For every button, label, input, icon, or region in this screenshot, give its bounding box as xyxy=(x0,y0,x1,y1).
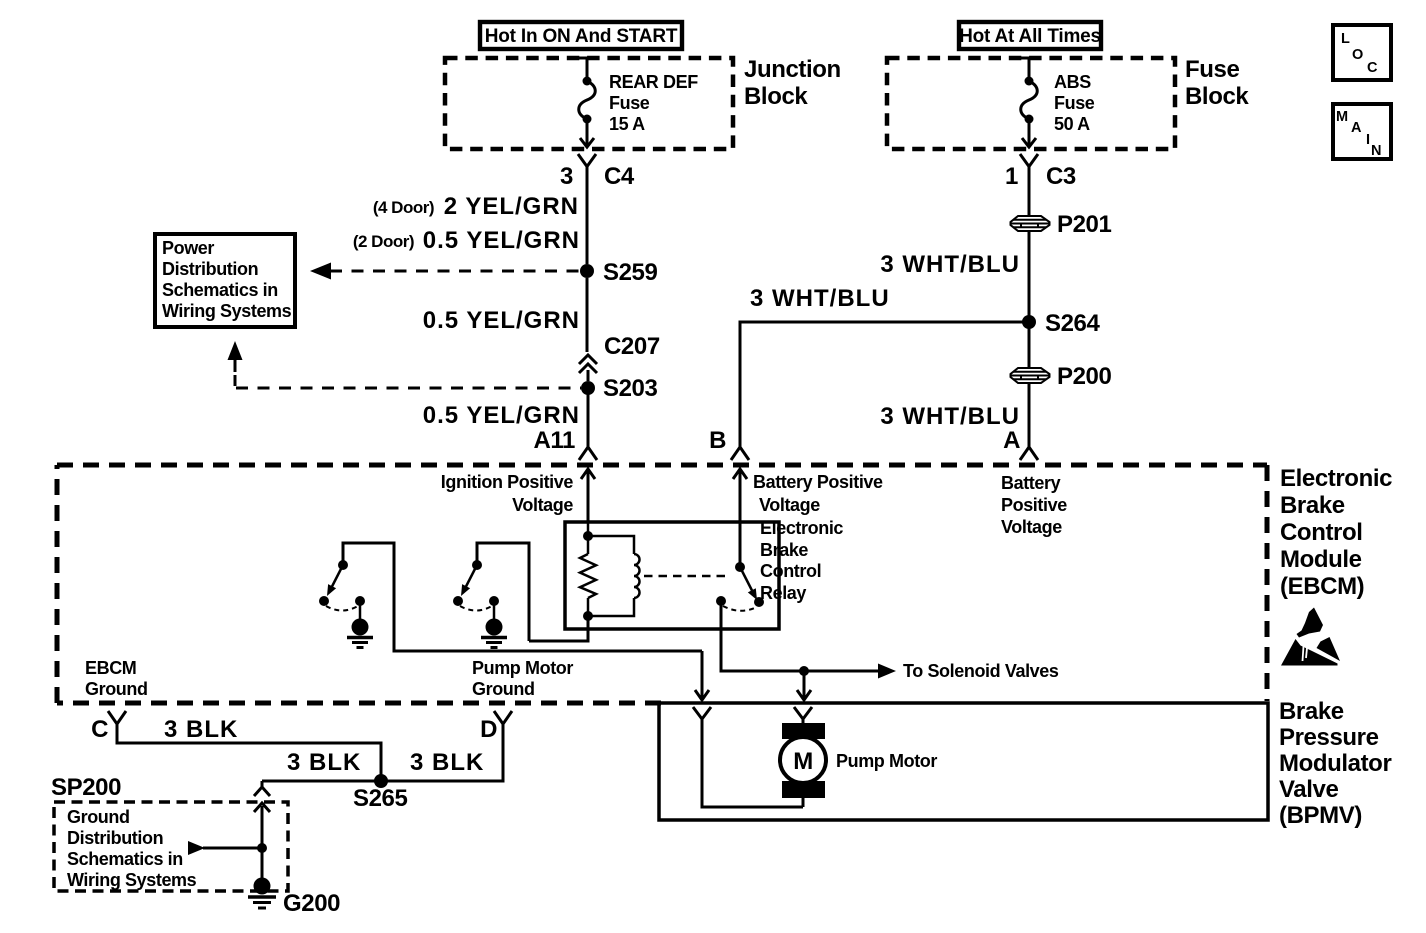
svg-text:Fuse: Fuse xyxy=(1054,93,1095,113)
svg-text:Ignition Positive: Ignition Positive xyxy=(441,472,574,492)
relay box xyxy=(565,522,779,629)
LOC legend box xyxy=(1333,25,1391,80)
connector C4 xyxy=(578,154,596,264)
wire S265 to SP200 xyxy=(262,780,381,783)
Junction Block dashed box xyxy=(445,58,733,149)
svg-text:Distribution: Distribution xyxy=(162,259,258,279)
svg-text:C: C xyxy=(91,716,108,743)
wire B to relay switch with up arrow xyxy=(733,469,747,567)
svg-text:Brake: Brake xyxy=(1279,698,1344,725)
svg-text:Wiring Systems: Wiring Systems xyxy=(67,870,197,890)
connector C3 xyxy=(1020,154,1038,216)
svg-text:3: 3 xyxy=(560,163,573,190)
EBCM internal switch 1 xyxy=(319,543,702,651)
svg-text:Block: Block xyxy=(744,83,808,110)
svg-text:L: L xyxy=(1341,31,1350,47)
svg-text:50 A: 50 A xyxy=(1054,114,1090,134)
svg-text:Block: Block xyxy=(1185,83,1249,110)
wire S259 to C207 xyxy=(586,278,589,352)
svg-text:2 YEL/GRN: 2 YEL/GRN xyxy=(444,193,579,220)
inline connector P201 xyxy=(1011,216,1050,231)
svg-text:P200: P200 xyxy=(1057,363,1112,390)
svg-text:Hot At All Times: Hot At All Times xyxy=(959,26,1101,47)
svg-text:S259: S259 xyxy=(603,259,658,286)
svg-text:Positive: Positive xyxy=(1001,495,1067,515)
svg-text:SP200: SP200 xyxy=(51,774,121,801)
BPMV right pin connector xyxy=(794,707,812,725)
svg-text:C207: C207 xyxy=(604,333,660,360)
svg-text:Brake: Brake xyxy=(760,540,808,560)
fuse REAR DEF 15 A xyxy=(578,58,596,147)
ground (switch 2) xyxy=(493,601,496,619)
svg-text:Brake: Brake xyxy=(1280,492,1345,519)
connector B xyxy=(731,447,749,460)
svg-text:Schematics in: Schematics in xyxy=(162,280,278,300)
svg-text:REAR DEF: REAR DEF xyxy=(609,72,698,92)
svg-text:EBCM: EBCM xyxy=(85,658,136,678)
svg-text:P201: P201 xyxy=(1057,211,1112,238)
splice S264 xyxy=(1022,315,1036,329)
svg-text:0.5 YEL/GRN: 0.5 YEL/GRN xyxy=(423,307,580,334)
svg-text:Hot In ON And START: Hot In ON And START xyxy=(485,26,678,47)
svg-text:Voltage: Voltage xyxy=(1001,517,1062,537)
svg-text:M: M xyxy=(1336,109,1348,125)
svg-text:Relay: Relay xyxy=(760,583,806,603)
relay actuation dashed line xyxy=(644,575,730,578)
svg-text:S203: S203 xyxy=(603,375,658,402)
svg-text:Battery Positive: Battery Positive xyxy=(753,472,883,492)
svg-text:C: C xyxy=(1367,60,1378,76)
EBCM dashed box xyxy=(57,465,1267,703)
svg-text:Voltage: Voltage xyxy=(512,495,573,515)
relay junction dots xyxy=(583,531,593,541)
connector A11 xyxy=(579,447,597,460)
relay resistor xyxy=(580,522,596,616)
connector C207 xyxy=(579,355,597,381)
svg-text:3 WHT/BLU: 3 WHT/BLU xyxy=(880,403,1020,430)
svg-text:Ground: Ground xyxy=(85,679,148,699)
splice S265 xyxy=(374,774,388,788)
ground (switch 1) xyxy=(359,601,362,619)
wire S264 to P200 xyxy=(1028,322,1031,369)
svg-text:Electronic: Electronic xyxy=(1280,465,1392,492)
SP200 dashed box: Ground Distribution Schematics in Wiring Systems xyxy=(54,802,288,891)
svg-text:3 BLK: 3 BLK xyxy=(287,749,361,776)
svg-text:Wiring Systems: Wiring Systems xyxy=(162,301,292,321)
wire S203 to A11 xyxy=(587,388,590,449)
inline connector P200 xyxy=(1011,368,1050,383)
svg-text:(4 Door): (4 Door) xyxy=(373,198,434,217)
MAIN legend box xyxy=(1333,104,1391,159)
relay switch xyxy=(735,562,745,572)
svg-text:Voltage: Voltage xyxy=(759,495,820,515)
BPMV left pin connector xyxy=(693,707,803,807)
svg-text:To Solenoid Valves: To Solenoid Valves xyxy=(903,661,1059,681)
svg-text:Electronic: Electronic xyxy=(760,518,843,538)
BPMV box xyxy=(659,703,1268,820)
svg-text:Ground: Ground xyxy=(67,807,130,827)
svg-text:Power: Power xyxy=(162,238,214,258)
splice S203 xyxy=(581,381,595,395)
svg-text:Valve: Valve xyxy=(1279,776,1338,803)
svg-text:Pressure: Pressure xyxy=(1279,724,1379,751)
relay coil xyxy=(588,536,640,616)
dashed wire S259 to Power Distribution box xyxy=(330,270,581,273)
svg-text:Module: Module xyxy=(1280,546,1362,573)
svg-text:D: D xyxy=(480,716,497,743)
svg-text:3 BLK: 3 BLK xyxy=(164,716,238,743)
svg-text:Ground: Ground xyxy=(472,679,535,699)
arrow to G200 wire xyxy=(188,841,205,855)
arrow into Power Distribution box (from S203 dashed wire) xyxy=(228,341,243,360)
svg-text:ABS: ABS xyxy=(1054,72,1091,92)
svg-text:0.5 YEL/GRN: 0.5 YEL/GRN xyxy=(423,227,580,254)
connector chevrons on ground wire xyxy=(254,781,270,878)
junction dot on solenoid wire xyxy=(799,666,809,676)
svg-text:1: 1 xyxy=(1005,163,1018,190)
svg-text:0.5 YEL/GRN: 0.5 YEL/GRN xyxy=(423,402,580,429)
svg-text:C4: C4 xyxy=(604,163,635,190)
wire junction down to BPMV with arrow xyxy=(797,671,811,700)
svg-text:A: A xyxy=(1351,120,1362,136)
svg-text:Junction: Junction xyxy=(744,56,841,83)
svg-text:Schematics in: Schematics in xyxy=(67,849,183,869)
ESD sensitivity symbol xyxy=(1281,608,1340,666)
connector A xyxy=(1020,447,1038,460)
svg-text:N: N xyxy=(1371,143,1381,159)
svg-text:Distribution: Distribution xyxy=(67,828,163,848)
ground G200 xyxy=(254,878,271,895)
svg-text:15 A: 15 A xyxy=(609,114,645,134)
wire P201 to S264 xyxy=(1028,231,1031,322)
label box: Hot In ON And START xyxy=(480,22,682,49)
svg-text:(BPMV): (BPMV) xyxy=(1279,802,1362,829)
svg-text:Pump Motor: Pump Motor xyxy=(472,658,573,678)
svg-text:M: M xyxy=(793,748,813,775)
svg-text:S264: S264 xyxy=(1045,310,1101,337)
svg-text:(2 Door): (2 Door) xyxy=(353,232,414,251)
svg-text:Fuse: Fuse xyxy=(609,93,650,113)
dashed wire S203 to arrow xyxy=(236,387,581,390)
svg-text:A11: A11 xyxy=(533,427,575,454)
wire relay switch to solenoid valves and pump motor xyxy=(721,601,884,671)
svg-text:Control: Control xyxy=(760,561,821,581)
svg-text:I: I xyxy=(1366,132,1370,148)
EBCM internal switch 2 xyxy=(453,543,529,648)
wire S265 to D xyxy=(381,724,503,781)
label box: Hot At All Times xyxy=(959,22,1101,49)
svg-text:A: A xyxy=(1003,427,1020,454)
svg-text:Battery: Battery xyxy=(1001,473,1061,493)
box Power Distribution Schematics in Wiring Systems xyxy=(155,234,295,327)
wire switch 1 down to BPMV left pin with arrow xyxy=(695,651,709,700)
Fuse Block dashed box xyxy=(887,58,1175,149)
svg-text:3 WHT/BLU: 3 WHT/BLU xyxy=(880,251,1020,278)
svg-text:S265: S265 xyxy=(353,785,408,812)
relay coil wire to switches xyxy=(529,616,588,641)
svg-text:Modulator: Modulator xyxy=(1279,750,1391,777)
wire S264 to B xyxy=(740,322,1029,449)
text Electronic Brake Control Module (EBCM) xyxy=(1280,465,1392,600)
svg-text:3 WHT/BLU: 3 WHT/BLU xyxy=(750,285,890,312)
splice S259 xyxy=(580,264,594,278)
wire P200 to A xyxy=(1028,383,1031,449)
svg-text:C3: C3 xyxy=(1046,163,1076,190)
svg-text:G200: G200 xyxy=(283,890,340,917)
pump motor M1 xyxy=(782,723,825,739)
fuse ABS 50 A xyxy=(1020,58,1038,147)
wire A11 into relay with up arrow xyxy=(581,469,595,522)
svg-text:B: B xyxy=(709,427,726,454)
text Brake Pressure Modulator Valve (BPMV) xyxy=(1279,698,1391,829)
svg-text:3 BLK: 3 BLK xyxy=(410,749,484,776)
svg-text:Pump Motor: Pump Motor xyxy=(836,751,937,771)
svg-text:(EBCM): (EBCM) xyxy=(1280,573,1364,600)
svg-text:Control: Control xyxy=(1280,519,1363,546)
svg-text:Fuse: Fuse xyxy=(1185,56,1239,83)
svg-text:O: O xyxy=(1352,47,1363,63)
